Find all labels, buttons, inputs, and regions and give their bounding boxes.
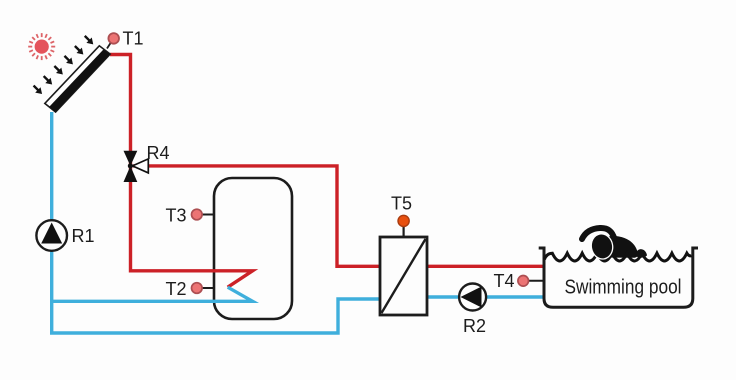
swimmer arm bbox=[582, 228, 614, 239]
wire: cold return main from collector through pump R1 to heat exchanger (blue) bbox=[52, 112, 382, 333]
sensor T5 bbox=[398, 215, 409, 237]
sunlight arrow 3 bbox=[52, 63, 66, 77]
svg-text:R4: R4 bbox=[147, 143, 170, 163]
sunlight arrow 4 bbox=[62, 53, 76, 67]
swimming pool basin bbox=[539, 248, 698, 307]
storage tank bbox=[214, 178, 292, 319]
wire: cold pipe from heat exchanger to pool (blue) bbox=[425, 295, 544, 298]
heat exchanger bbox=[380, 237, 427, 315]
sensor T1 bbox=[107, 33, 119, 48]
swimmer head bbox=[590, 233, 614, 260]
svg-text:R2: R2 bbox=[463, 316, 486, 336]
solar collector panel bbox=[45, 46, 110, 112]
swimmer torso bbox=[604, 236, 638, 258]
pump R1 bbox=[36, 220, 67, 251]
swimmer legs bbox=[635, 249, 647, 258]
sensor T2 bbox=[192, 283, 215, 294]
svg-text:R1: R1 bbox=[72, 226, 95, 246]
wire: hot pipe from heat exchanger to pool (red) bbox=[425, 265, 544, 268]
svg-text:T5: T5 bbox=[391, 193, 412, 213]
sensor T3 bbox=[192, 209, 215, 220]
sun bbox=[28, 33, 55, 60]
sunlight arrow 2 bbox=[41, 73, 55, 87]
svg-text:Swimming pool: Swimming pool bbox=[565, 277, 682, 299]
sunlight arrow 1 bbox=[31, 83, 45, 97]
sunlight arrow 5 bbox=[72, 43, 86, 57]
valve R4 bbox=[124, 151, 149, 182]
pump R2 bbox=[459, 284, 486, 311]
svg-text:T2: T2 bbox=[166, 279, 187, 299]
svg-text:T1: T1 bbox=[123, 29, 144, 49]
wire: hot pipe from valve R4 to heat exchanger (red) bbox=[133, 166, 382, 266]
sensor T4 bbox=[518, 276, 543, 287]
svg-text:T3: T3 bbox=[166, 205, 187, 225]
water wave bbox=[545, 253, 692, 261]
sunlight arrow 6 bbox=[82, 33, 96, 47]
wire: tank coil outlet to return main (blue) bbox=[52, 287, 253, 301]
wire: hot pipe from collector through valve R4 into tank coil (red) bbox=[110, 55, 253, 288]
svg-text:T4: T4 bbox=[494, 271, 515, 291]
